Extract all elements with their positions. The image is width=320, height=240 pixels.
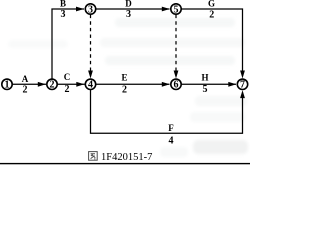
svg-text:4: 4 (169, 135, 174, 146)
arrowhead into node5 (162, 7, 170, 12)
svg-text:B: B (60, 0, 66, 8)
dummy arrow node5 to node6 (dashed) (175, 15, 177, 72)
node 7 (237, 79, 247, 89)
arrowhead into node6 from dummy (174, 71, 179, 79)
svg-text:3: 3 (61, 9, 66, 20)
arrowhead into node2 (38, 82, 46, 87)
arrowhead into node3 (76, 7, 84, 12)
svg-text:6: 6 (174, 80, 179, 91)
node 6 (171, 79, 181, 89)
wire C: node2 to node4 (57, 83, 84, 85)
wire G: node5 right then down to node7 (182, 9, 243, 72)
arrowhead into node7 from H (228, 82, 236, 87)
node 3 (85, 4, 95, 14)
svg-text:2: 2 (209, 10, 214, 21)
arrowhead into node6 from E (162, 82, 170, 87)
node 1 (2, 79, 12, 89)
svg-text:1: 1 (5, 80, 10, 91)
svg-text:2: 2 (65, 84, 70, 95)
arrowhead into node4 from dummy (88, 71, 93, 79)
wire D: node3 to node5 (96, 8, 170, 10)
svg-text:5: 5 (203, 84, 208, 95)
svg-text:A: A (22, 74, 29, 84)
svg-text:2: 2 (23, 84, 28, 95)
svg-text:E: E (121, 72, 127, 82)
svg-text:2: 2 (50, 80, 55, 91)
wire E: node4 to node6 (96, 83, 170, 85)
arrowhead into node4 from C (76, 82, 84, 87)
svg-text:F: F (168, 123, 174, 133)
svg-text:D: D (125, 0, 132, 9)
svg-text:H: H (201, 72, 208, 82)
svg-text:4: 4 (88, 80, 93, 91)
node 2 (47, 79, 57, 89)
svg-text:C: C (64, 72, 71, 82)
svg-text:7: 7 (240, 80, 245, 91)
svg-text:5: 5 (174, 4, 179, 15)
arrowhead into node7 from F (up) (240, 90, 245, 98)
wire F: node4 down, right, up to node7 (91, 90, 243, 134)
wire H: node6 to node7 (182, 83, 237, 85)
bottom rule (0, 163, 250, 164)
wire A: node1 to node2 (12, 83, 46, 85)
node 4 (85, 79, 95, 89)
dummy arrow node3 to node4 (dashed) (90, 15, 92, 72)
svg-text:1F420151-7: 1F420151-7 (101, 152, 152, 163)
wire B: node2 up and right to node3 (52, 9, 84, 79)
caption character 图 drawn as strokes (89, 152, 98, 161)
svg-text:3: 3 (126, 9, 131, 20)
arrowhead into node7 from G (down) (240, 71, 245, 79)
svg-text:3: 3 (88, 4, 93, 15)
node 5 (171, 4, 181, 14)
svg-text:G: G (208, 0, 215, 9)
svg-text:2: 2 (122, 84, 127, 95)
